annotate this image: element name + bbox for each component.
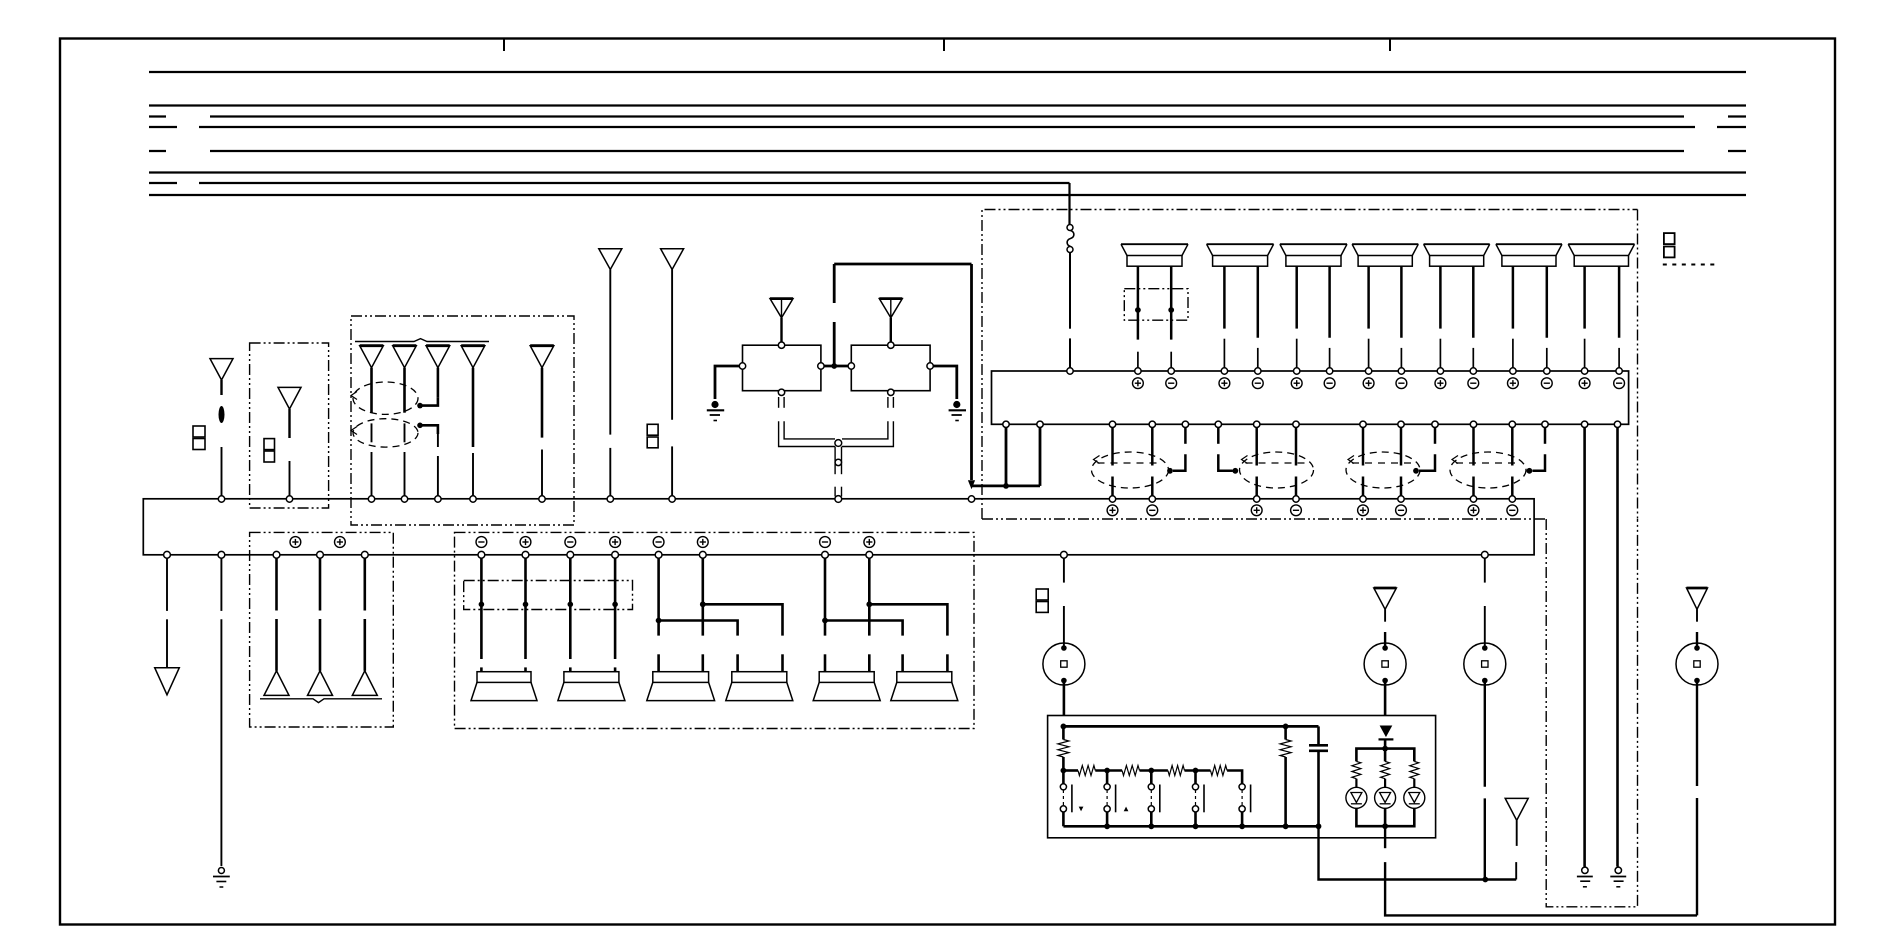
wire antenna D5	[541, 368, 544, 496]
shield ellipse E3	[1346, 452, 1420, 488]
wire speaker sp1	[524, 558, 527, 672]
terminal head unit antenna feed	[968, 496, 974, 502]
device illumination device M2	[1364, 643, 1406, 685]
connector dots crossover F	[1135, 307, 1174, 313]
dash-dot box C speaker group	[455, 532, 975, 728]
polarity symbol bottom S2m	[565, 537, 576, 548]
speaker TSP4 body	[1352, 244, 1418, 266]
terminal head unit bottom sp5p	[866, 551, 873, 558]
terminal head unit bottom arrow wire	[164, 551, 171, 558]
wire shield drain E1	[1167, 427, 1185, 474]
polarity symbol head unit E3p	[1358, 505, 1369, 516]
terminal head unit D1	[368, 496, 374, 502]
terminal head unit bottom sp2m	[567, 551, 574, 558]
terminal amp ch3 plus	[1294, 368, 1300, 374]
terminal relay2 bottom	[888, 389, 894, 395]
wire R4-R5	[1185, 768, 1211, 774]
wire crossover sp4 plus	[703, 604, 783, 671]
shield ellipse Db	[351, 419, 418, 447]
polarity symbol amp ch2 minus	[1252, 378, 1263, 389]
dashed lead top right	[1663, 264, 1718, 266]
resistor R1	[1058, 726, 1069, 770]
terminal relay2 top	[888, 342, 894, 348]
wire bus line 5	[149, 150, 1746, 152]
speaker TSP7 body	[1568, 244, 1634, 266]
dash-dot box D antenna group	[351, 316, 574, 525]
wire led cluster to device4	[1385, 826, 1697, 915]
wire arrow to device2	[1384, 609, 1386, 648]
terminal head unit E3p	[1360, 496, 1366, 502]
antenna arrow D2	[393, 346, 417, 368]
wire TSP7 plus	[1618, 266, 1621, 368]
speaker SP3 body	[647, 672, 715, 701]
terminal head unit E2p	[1254, 496, 1260, 502]
polarity symbol amp ch1 minus	[1166, 378, 1177, 389]
terminal amp ch6 plus	[1510, 368, 1516, 374]
polarity symbol amp ch1 plus	[1133, 378, 1144, 389]
device security device M3	[1464, 643, 1506, 685]
connector dots B2	[479, 602, 618, 608]
wire amp power tee	[972, 427, 1041, 489]
antenna arrow D4	[461, 346, 485, 368]
terminal amp ch7 minus	[1616, 368, 1622, 374]
terminal head unit bottom sp1m	[478, 551, 485, 558]
arrow antenna feed	[968, 480, 975, 489]
resistor led R1	[1352, 761, 1361, 778]
terminal amp bottom	[1542, 421, 1548, 427]
wire bus line 2	[149, 104, 1746, 106]
terminal head unit coax	[835, 496, 842, 503]
terminal amp ch6 minus	[1544, 368, 1550, 374]
bullet connector left antenna	[219, 406, 225, 423]
terminal head unit bottom dev1	[1061, 551, 1068, 558]
wire arrow to device4	[1696, 609, 1698, 648]
polarity symbol amp ch4 plus	[1363, 378, 1374, 389]
antenna arrow device4	[1687, 588, 1708, 609]
polarity symbol head unit E3m	[1396, 505, 1407, 516]
wire tweeter 2	[319, 558, 322, 671]
wire tweeter 1	[275, 558, 278, 671]
wire shield E4 b	[1511, 427, 1514, 496]
terminal amp ch2 minus	[1255, 368, 1261, 374]
wire R3-R4	[1140, 768, 1168, 774]
wire head unit to device1	[1063, 558, 1065, 648]
wire speaker sp3 plus	[700, 558, 706, 672]
terminal amp bottom	[1398, 421, 1404, 427]
terminal relay1 bottom	[778, 389, 784, 395]
terminal head unit bottom sp2p	[612, 551, 619, 558]
polarity symbol amp ch6 plus	[1508, 378, 1519, 389]
connector squares tall wires	[647, 424, 658, 448]
terminal amp bottom	[1109, 421, 1115, 427]
polarity symbol amp ch7 minus	[1614, 378, 1625, 389]
polarity symbol amp ch3 minus	[1324, 378, 1335, 389]
speaker TSP5 body	[1424, 244, 1490, 266]
brace over antennas	[355, 339, 489, 342]
speaker SP6 body	[891, 672, 958, 701]
wire speaker sp5 minus	[822, 558, 828, 672]
terminal amp bottom	[1293, 421, 1299, 427]
brace under triangles	[260, 699, 382, 703]
terminal head unit E3m	[1398, 496, 1404, 502]
terminal head unit D4	[470, 496, 476, 502]
wire shield E3 a	[1362, 427, 1365, 496]
terminal head unit E1p	[1109, 496, 1115, 502]
shield ellipse E1	[1092, 452, 1169, 488]
wire antenna left lower	[221, 447, 223, 496]
dash-dot box G ground area	[1546, 519, 1637, 907]
diode D1	[1379, 726, 1394, 740]
connector C1 inline	[1067, 225, 1074, 253]
remote panel box	[1048, 716, 1436, 838]
wire shield E2 a	[1255, 427, 1258, 496]
terminal relay2 left	[848, 363, 854, 369]
switch SW3	[1148, 771, 1160, 827]
speaker TSP1 body	[1121, 244, 1188, 266]
switch symbol seek-down	[1079, 807, 1084, 812]
device sub device M4	[1676, 643, 1718, 685]
terminal head unit antenna A	[286, 496, 292, 502]
wire to arrow	[166, 558, 168, 668]
speaker TSP2 body	[1207, 244, 1274, 266]
wire TSP2 minus	[1223, 266, 1226, 368]
terminal head unit bottom sp1p	[522, 551, 529, 558]
wire antenna D3 lower	[437, 434, 439, 496]
switch SW2	[1104, 771, 1116, 827]
wire device4 down	[1696, 681, 1698, 916]
top border fold tick 3	[1389, 39, 1391, 51]
polarity symbol amp ch6 minus	[1541, 378, 1552, 389]
wire head unit to device3	[1484, 558, 1486, 648]
terminal amp bottom	[1149, 421, 1155, 427]
wire crossover sp6 minus	[825, 621, 903, 672]
antenna arrow D1	[360, 346, 384, 368]
wire relay junction	[824, 363, 848, 369]
terminal head unit E4m	[1509, 496, 1515, 502]
terminal head unit D2	[401, 496, 407, 502]
speaker SP5 body	[813, 672, 880, 701]
terminal amp ch1 plus	[1135, 368, 1141, 374]
wire panel bottom rail	[1063, 823, 1321, 829]
connector squares left antenna	[193, 426, 205, 450]
wire speaker sp5 plus	[866, 558, 872, 672]
polarity symbol bottom S3p	[697, 537, 708, 548]
wire panel to bus	[1319, 826, 1517, 882]
dash-dot box F tweeter crossover	[1124, 289, 1188, 321]
antenna arrow D5	[530, 346, 554, 368]
antenna arrow left	[210, 359, 233, 380]
speaker TSP3 body	[1280, 244, 1347, 266]
arrow connector down	[155, 668, 180, 695]
coax relay2 down	[842, 397, 893, 447]
terminal amp bottom	[1432, 421, 1438, 427]
wire R2-R3	[1095, 768, 1122, 774]
antenna arrow A	[278, 387, 301, 409]
wire relay2 ground lead	[933, 366, 957, 399]
relay box 2	[851, 345, 930, 391]
arrow connector accessory	[1505, 798, 1528, 820]
wire panel mid rail	[1061, 768, 1079, 774]
wire relay2 stem	[890, 318, 892, 343]
resistor led R3	[1410, 761, 1419, 778]
wire bus line 7	[149, 182, 1070, 184]
polarity symbol amp ch2 plus	[1219, 378, 1230, 389]
bullet connector coax	[835, 459, 841, 465]
dash-dot box antenna A	[250, 343, 329, 508]
terminal head unit bottom tw2	[317, 551, 324, 558]
wire shield E2 b	[1295, 427, 1298, 496]
terminal relay1 top	[778, 342, 784, 348]
antenna arrow relay 2	[879, 299, 902, 318]
terminal amp ch4 minus	[1398, 368, 1404, 374]
wire crossover sp4 minus	[659, 621, 738, 672]
wire antenna D4	[472, 368, 475, 496]
wire shield drain E2	[1218, 427, 1238, 474]
wire shield E4 a	[1472, 427, 1475, 496]
top border fold tick 2	[943, 39, 945, 51]
terminal head unit bottom sp5m	[822, 551, 829, 558]
polarity symbol amp ch5 minus	[1468, 378, 1479, 389]
wire panel top rail	[1061, 724, 1319, 730]
terminal head unit bottom tw1	[273, 551, 280, 558]
wire speaker sp2	[614, 558, 617, 672]
terminal amp power 2	[1037, 421, 1043, 427]
wire bus line 3	[149, 115, 1746, 117]
amplifier box	[992, 371, 1629, 424]
wire TSP5 minus	[1439, 266, 1442, 368]
head unit box	[143, 499, 1534, 555]
ground amp 1	[1577, 867, 1593, 887]
wire TSP7 minus	[1583, 266, 1586, 368]
wire antenna A stem	[288, 409, 290, 438]
wire antenna D2	[403, 368, 406, 496]
terminal amp ch2 plus	[1221, 368, 1227, 374]
terminal head unit E4p	[1470, 496, 1476, 502]
resistor R4	[1168, 766, 1185, 776]
terminal head unit bottom ground wire	[218, 551, 225, 558]
terminal amp ch7 plus	[1581, 368, 1587, 374]
coax relay1 down	[779, 397, 835, 447]
connector squares device1	[1036, 589, 1048, 612]
wire TSP3 minus	[1295, 266, 1298, 368]
LED L3	[1404, 779, 1425, 809]
terminal head unit D5	[539, 496, 545, 502]
terminal relay1 left	[739, 363, 745, 369]
LED L2	[1375, 779, 1396, 809]
switch SW5	[1239, 784, 1251, 827]
antenna arrow D3	[426, 346, 450, 368]
connector up-triangle 1	[264, 671, 289, 696]
polarity symbol bottom B1	[290, 537, 301, 548]
wire shield E3 b	[1400, 427, 1403, 496]
connector up-triangle 3	[352, 671, 377, 696]
LED L1	[1346, 779, 1367, 809]
wire shield drain E4	[1527, 427, 1546, 474]
shield jumper D3 upper	[417, 397, 438, 408]
wire antenna A lower	[289, 461, 291, 496]
ground amp 2	[1610, 867, 1626, 887]
shield ellipse E2	[1240, 452, 1314, 488]
relay box 1	[743, 345, 821, 391]
polarity symbol head unit E4p	[1468, 505, 1479, 516]
terminal relay2 right	[927, 363, 933, 369]
dash-dot box B tweeter group	[250, 532, 394, 727]
wire bus line 4	[149, 126, 1746, 128]
resistor R5	[1211, 766, 1228, 776]
wire device2 to diode	[1384, 681, 1387, 716]
connector up-triangle 2	[308, 671, 333, 696]
speaker TSP6 body	[1496, 244, 1562, 266]
polarity symbol bottom S5m	[820, 537, 831, 548]
wire tall 2	[671, 270, 673, 497]
top border fold tick 1	[503, 39, 505, 51]
terminal amp bottom	[1254, 421, 1260, 427]
wire bus line 8	[149, 194, 1746, 196]
polarity symbol bottom B2	[335, 537, 346, 548]
dash-dot box E amp area	[982, 210, 1638, 520]
polarity symbol head unit E1p	[1107, 505, 1118, 516]
terminal head unit bottom sp3m	[655, 551, 662, 558]
dash-dot box B2 connector	[464, 581, 633, 610]
terminal amp bottom	[1360, 421, 1366, 427]
polarity symbol head unit E2m	[1291, 505, 1302, 516]
connector coax junction	[835, 440, 842, 447]
switch symbol seek-up	[1124, 807, 1129, 812]
wire relay1 ground lead	[715, 366, 739, 399]
wire speaker sp3 minus	[656, 558, 662, 672]
wire shield drain E3	[1413, 427, 1435, 474]
terminal head unit bottom tw3	[361, 551, 368, 558]
terminal amp ch1 minus	[1168, 368, 1174, 374]
terminal amp power 1	[1003, 421, 1009, 427]
wire device1 to panel	[1063, 681, 1066, 716]
switch SW4	[1192, 771, 1204, 827]
terminal amp bottom	[1215, 421, 1221, 427]
terminal head unit tall 2	[669, 496, 675, 502]
wire bus line 1	[149, 71, 1746, 73]
polarity symbol head unit E4m	[1507, 505, 1518, 516]
resistor R2	[1078, 766, 1095, 776]
ground relay2	[949, 401, 966, 421]
wire TSP4 minus	[1367, 266, 1370, 368]
resistor R6	[1280, 726, 1291, 826]
wire arrow accessory	[1515, 820, 1518, 879]
ground relay1	[707, 401, 724, 421]
terminal amp bottom	[1182, 421, 1188, 427]
terminal amp bottom	[1509, 421, 1515, 427]
speaker SP4 body	[726, 672, 793, 701]
terminal head unit E2m	[1293, 496, 1299, 502]
wire antenna feed up-over	[834, 264, 971, 480]
wire speaker sp1	[480, 558, 483, 672]
wire tall 1	[609, 270, 611, 497]
speaker SP2 body	[558, 672, 625, 701]
wire led bottom rail	[1356, 808, 1414, 829]
wire TSP4 plus	[1400, 266, 1403, 368]
wire crossover sp6 plus	[869, 604, 947, 671]
polarity symbol bottom S3m	[653, 537, 664, 548]
ground bottom left	[213, 868, 230, 888]
wire shield E1 b	[1151, 427, 1154, 496]
polarity symbol head unit E2p	[1251, 505, 1262, 516]
wire TSP6 minus	[1512, 266, 1515, 368]
wire TSP1 plus	[1170, 266, 1173, 368]
polarity symbol amp ch5 plus	[1435, 378, 1446, 389]
polarity symbol bottom S5p	[864, 537, 875, 548]
polarity symbol head unit E1m	[1147, 505, 1158, 516]
antenna arrow tall 1	[599, 249, 622, 270]
terminal relay1 right	[818, 363, 824, 369]
terminal amp bottom	[1470, 421, 1476, 427]
wire antenna D1	[370, 368, 373, 496]
terminal amp ch5 minus	[1470, 368, 1476, 374]
wire speaker sp2	[569, 558, 572, 672]
terminal head unit left antenna	[218, 496, 224, 502]
terminal amp bus feed	[1067, 368, 1073, 374]
device motor antenna M1	[1043, 643, 1085, 685]
polarity symbol amp ch3 plus	[1291, 378, 1302, 389]
switch SW1	[1060, 771, 1072, 827]
wire TSP5 plus	[1472, 266, 1475, 368]
polarity symbol bottom S1m	[476, 537, 487, 548]
wire connector to amp	[1069, 253, 1071, 369]
terminal head unit D3	[435, 496, 441, 502]
terminal head unit bottom sp3p	[699, 551, 706, 558]
wire led top rail	[1356, 739, 1414, 761]
shield jumper D3 lower	[417, 423, 438, 435]
capacitor C1	[1309, 726, 1328, 826]
polarity symbol bottom S2p	[610, 537, 621, 548]
wire antenna left stem	[220, 380, 222, 395]
wire bus line 6	[149, 171, 1746, 173]
terminal amp ch5 plus	[1437, 368, 1443, 374]
wire TSP6 plus	[1546, 266, 1549, 368]
wire antenna D3 upper	[437, 368, 440, 398]
shield ellipse Da	[351, 382, 418, 414]
wire relay1 stem	[780, 318, 782, 343]
antenna arrow relay 1	[770, 299, 793, 318]
polarity symbol bottom S1p	[520, 537, 531, 548]
wire TSP1 minus	[1137, 266, 1140, 368]
terminal head unit E1m	[1149, 496, 1155, 502]
wire TSP2 plus	[1257, 266, 1260, 368]
connector squares top right	[1664, 233, 1675, 257]
antenna arrow tall 2	[661, 249, 684, 270]
speaker SP1 body	[471, 672, 537, 701]
wire bus7 drop	[1068, 183, 1070, 225]
resistor led R2	[1381, 749, 1390, 779]
shield ellipse E4	[1450, 452, 1526, 488]
wire amp ground 2	[1616, 427, 1619, 867]
terminal amp ch3 minus	[1326, 368, 1332, 374]
polarity symbol amp ch4 minus	[1396, 378, 1407, 389]
connector squares antenna A	[264, 439, 275, 462]
terminal head unit tall 1	[607, 496, 613, 502]
wire R5 to sw5	[1227, 771, 1242, 785]
antenna arrow device2	[1374, 588, 1397, 609]
terminal amp bottom	[1614, 421, 1620, 427]
wire device3 down	[1484, 681, 1486, 880]
polarity symbol amp ch7 plus	[1579, 378, 1590, 389]
terminal amp bottom	[1581, 421, 1587, 427]
coax center down	[835, 447, 841, 497]
wire tweeter 3	[363, 558, 366, 671]
wire TSP3 plus	[1328, 266, 1331, 368]
resistor R3	[1122, 766, 1139, 776]
terminal amp ch4 plus	[1365, 368, 1371, 374]
wire to ground left	[220, 558, 222, 866]
wire shield E1 a	[1111, 427, 1114, 496]
